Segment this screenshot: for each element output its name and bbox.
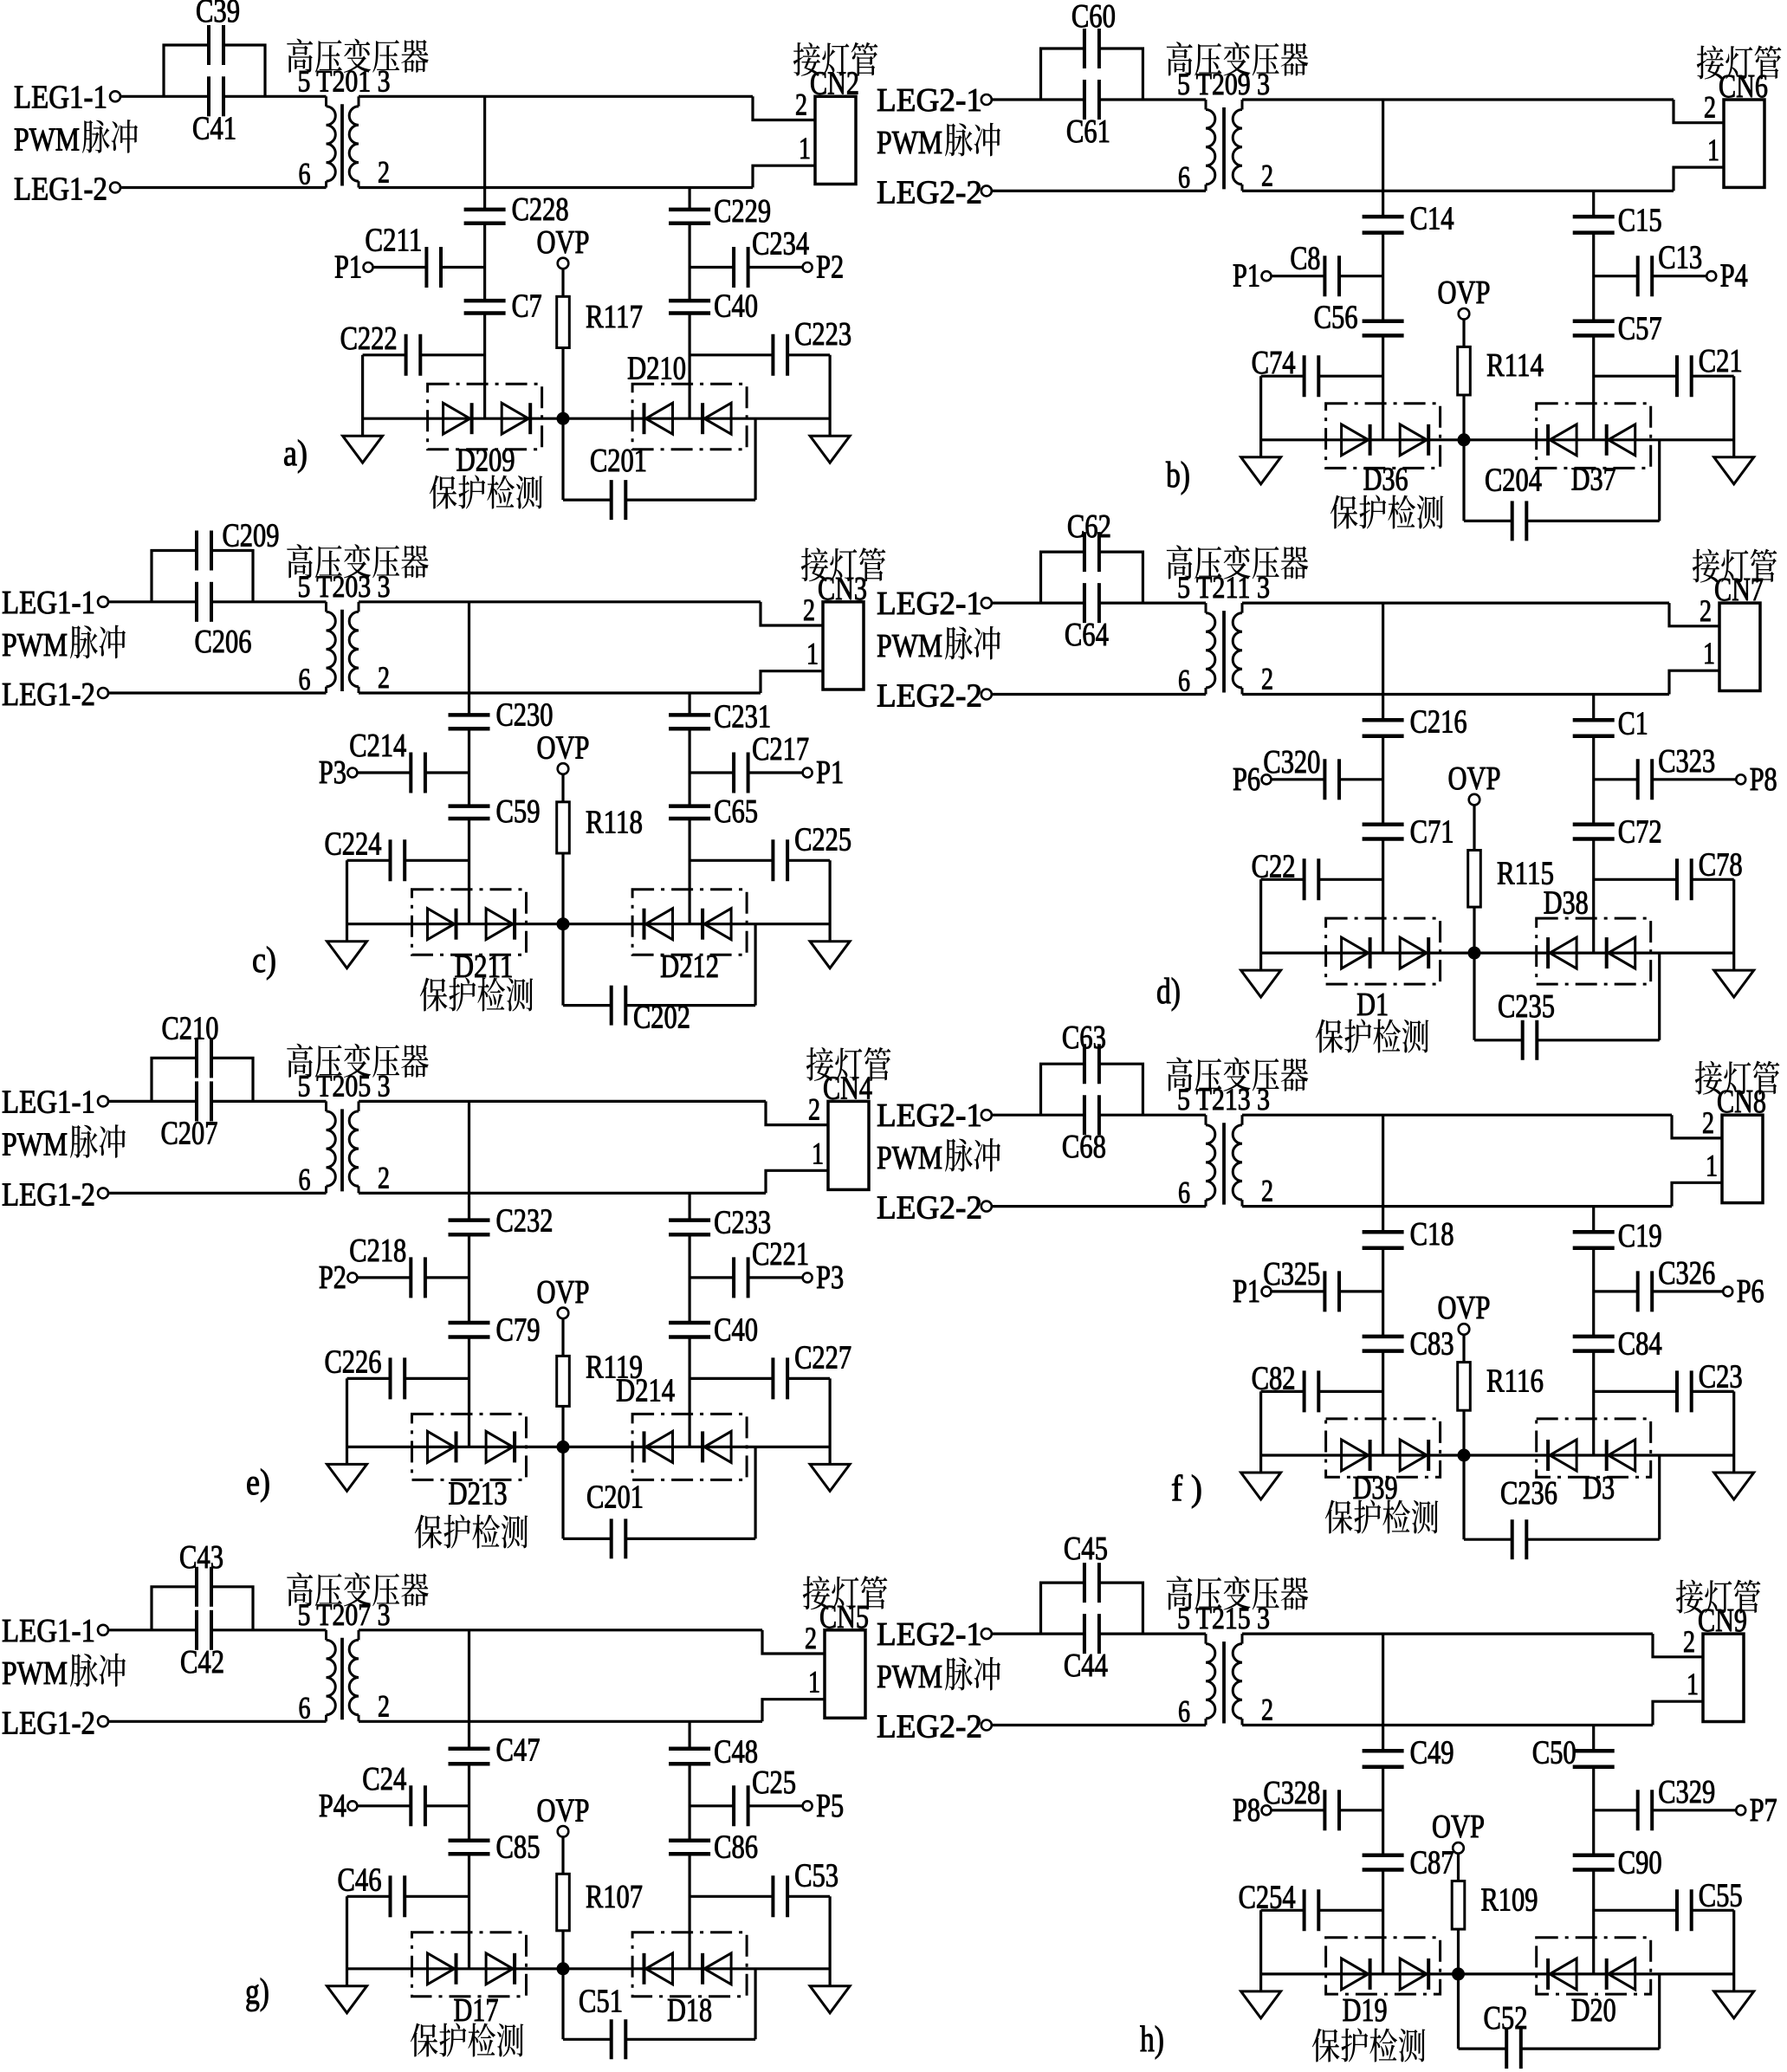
svg-text:LEG2-2: LEG2-2 xyxy=(877,1190,982,1227)
svg-text:D19: D19 xyxy=(1343,1992,1388,2029)
svg-text:R118: R118 xyxy=(586,804,643,840)
svg-text:LEG2-2: LEG2-2 xyxy=(877,678,982,715)
svg-text:2: 2 xyxy=(1261,662,1273,696)
svg-text:C209: C209 xyxy=(223,518,280,554)
svg-text:2: 2 xyxy=(1261,1174,1273,1208)
svg-text:CN6: CN6 xyxy=(1719,68,1768,105)
svg-text:P1: P1 xyxy=(1233,258,1260,295)
svg-text:C236: C236 xyxy=(1500,1475,1557,1512)
svg-text:C40: C40 xyxy=(714,288,758,325)
svg-text:LEG1-1: LEG1-1 xyxy=(2,1613,95,1649)
svg-text:h): h) xyxy=(1140,2020,1164,2060)
svg-text:C14: C14 xyxy=(1410,201,1454,237)
svg-text:OVP: OVP xyxy=(1438,1290,1491,1326)
svg-text:1: 1 xyxy=(808,1665,820,1700)
svg-text:C326: C326 xyxy=(1658,1255,1715,1292)
svg-text:C49: C49 xyxy=(1410,1735,1454,1771)
svg-text:C201: C201 xyxy=(586,1479,644,1515)
svg-text:C23: C23 xyxy=(1699,1358,1743,1395)
svg-text:OVP: OVP xyxy=(537,224,590,261)
svg-text:C214: C214 xyxy=(349,728,406,764)
svg-text:P3: P3 xyxy=(319,754,346,791)
svg-text:CN4: CN4 xyxy=(823,1070,872,1106)
svg-text:LEG1-2: LEG1-2 xyxy=(2,1705,95,1741)
svg-text:C329: C329 xyxy=(1658,1774,1715,1810)
svg-text:C228: C228 xyxy=(512,191,569,228)
svg-text:b): b) xyxy=(1166,456,1190,495)
svg-text:2: 2 xyxy=(378,155,390,190)
svg-text:C225: C225 xyxy=(794,821,851,858)
svg-text:P1: P1 xyxy=(1233,1273,1260,1310)
svg-text:C74: C74 xyxy=(1252,345,1296,381)
svg-text:C79: C79 xyxy=(496,1312,541,1349)
svg-text:5 T201 3: 5 T201 3 xyxy=(298,63,391,98)
svg-text:C18: C18 xyxy=(1410,1216,1454,1253)
svg-text:C65: C65 xyxy=(714,793,758,830)
svg-text:CN9: CN9 xyxy=(1698,1603,1747,1639)
svg-text:6: 6 xyxy=(299,157,311,191)
svg-text:C224: C224 xyxy=(325,826,382,862)
svg-text:LEG2-2: LEG2-2 xyxy=(877,174,982,210)
svg-text:CN8: CN8 xyxy=(1717,1084,1766,1120)
svg-text:C44: C44 xyxy=(1064,1648,1108,1684)
svg-text:C63: C63 xyxy=(1062,1020,1106,1056)
svg-text:PWM: PWM xyxy=(14,121,80,158)
svg-text:PWM: PWM xyxy=(2,1655,68,1692)
svg-text:6: 6 xyxy=(1178,1175,1190,1210)
svg-text:5 T207 3: 5 T207 3 xyxy=(298,1597,391,1632)
svg-text:P2: P2 xyxy=(319,1259,346,1296)
svg-text:1: 1 xyxy=(799,131,811,165)
svg-text:R114: R114 xyxy=(1486,347,1544,384)
svg-text:P7: P7 xyxy=(1750,1792,1777,1829)
svg-text:6: 6 xyxy=(1178,1694,1190,1729)
svg-text:C50: C50 xyxy=(1532,1735,1577,1771)
svg-text:C229: C229 xyxy=(714,193,771,230)
svg-text:P4: P4 xyxy=(1720,258,1748,295)
svg-text:6: 6 xyxy=(1178,664,1190,698)
svg-text:PWM: PWM xyxy=(877,125,942,161)
svg-text:C207: C207 xyxy=(161,1115,218,1151)
svg-text:C47: C47 xyxy=(496,1732,541,1768)
svg-text:C57: C57 xyxy=(1618,310,1662,346)
svg-text:C85: C85 xyxy=(496,1829,541,1865)
svg-text:D212: D212 xyxy=(660,949,719,985)
svg-text:P5: P5 xyxy=(816,1788,844,1824)
svg-text:1: 1 xyxy=(806,637,819,671)
svg-text:LEG1-2: LEG1-2 xyxy=(2,1176,95,1213)
svg-text:2: 2 xyxy=(1261,1693,1273,1727)
svg-text:C15: C15 xyxy=(1618,203,1662,239)
svg-text:C56: C56 xyxy=(1314,299,1358,335)
svg-text:P1: P1 xyxy=(816,754,844,791)
svg-text:D17: D17 xyxy=(454,1992,499,2029)
svg-text:1: 1 xyxy=(1706,1148,1718,1182)
svg-text:f ): f ) xyxy=(1171,1469,1202,1509)
svg-text:2: 2 xyxy=(803,592,815,627)
svg-text:C7: C7 xyxy=(512,288,542,325)
svg-text:D38: D38 xyxy=(1544,885,1589,922)
svg-text:1: 1 xyxy=(1707,133,1719,167)
svg-text:6: 6 xyxy=(299,1162,311,1196)
svg-text:C211: C211 xyxy=(365,223,422,259)
svg-text:P3: P3 xyxy=(816,1259,844,1296)
svg-text:D36: D36 xyxy=(1363,461,1408,497)
svg-text:5 T213 3: 5 T213 3 xyxy=(1177,1082,1270,1117)
svg-text:LEG1-1: LEG1-1 xyxy=(2,585,95,621)
svg-text:C90: C90 xyxy=(1618,1845,1662,1881)
svg-text:C72: C72 xyxy=(1618,814,1662,851)
svg-text:P8: P8 xyxy=(1233,1792,1260,1829)
svg-text:P1: P1 xyxy=(334,249,362,286)
svg-text:P4: P4 xyxy=(319,1788,346,1824)
svg-text:C13: C13 xyxy=(1658,240,1702,276)
svg-text:D3: D3 xyxy=(1583,1470,1615,1506)
svg-text:LEG1-1: LEG1-1 xyxy=(14,79,107,115)
svg-text:2: 2 xyxy=(1702,1105,1714,1140)
svg-text:C231: C231 xyxy=(714,698,771,735)
svg-text:C232: C232 xyxy=(496,1202,554,1239)
svg-text:C86: C86 xyxy=(714,1829,758,1865)
svg-text:C55: C55 xyxy=(1699,1877,1743,1913)
svg-text:2: 2 xyxy=(378,1160,390,1195)
svg-text:PWM: PWM xyxy=(877,1659,942,1695)
svg-text:C222: C222 xyxy=(340,321,398,357)
svg-text:D210: D210 xyxy=(627,351,686,387)
svg-text:LEG1-2: LEG1-2 xyxy=(14,172,107,208)
svg-text:R117: R117 xyxy=(586,299,643,335)
svg-text:C204: C204 xyxy=(1485,462,1542,498)
svg-text:C45: C45 xyxy=(1064,1531,1108,1567)
svg-text:D213: D213 xyxy=(449,1475,508,1512)
svg-text:C87: C87 xyxy=(1410,1845,1454,1881)
svg-text:OVP: OVP xyxy=(537,1274,590,1311)
svg-text:C53: C53 xyxy=(794,1857,838,1894)
svg-text:2: 2 xyxy=(1683,1624,1695,1659)
svg-text:C84: C84 xyxy=(1618,1326,1662,1363)
svg-text:P2: P2 xyxy=(816,249,844,286)
svg-text:5 T203 3: 5 T203 3 xyxy=(298,569,391,604)
svg-text:C51: C51 xyxy=(579,1983,623,2019)
svg-text:C41: C41 xyxy=(192,110,236,146)
svg-text:C325: C325 xyxy=(1263,1256,1320,1292)
svg-text:C328: C328 xyxy=(1263,1775,1320,1811)
svg-text:6: 6 xyxy=(299,662,311,696)
svg-text:C43: C43 xyxy=(179,1539,223,1576)
svg-text:C39: C39 xyxy=(196,0,240,29)
svg-text:e): e) xyxy=(246,1463,270,1503)
svg-text:2: 2 xyxy=(378,660,390,695)
svg-text:a): a) xyxy=(283,434,308,474)
svg-text:C254: C254 xyxy=(1239,1879,1296,1915)
svg-text:C206: C206 xyxy=(195,624,252,660)
svg-text:C234: C234 xyxy=(752,226,809,262)
svg-text:LEG1-1: LEG1-1 xyxy=(2,1084,95,1120)
svg-text:5 T211 3: 5 T211 3 xyxy=(1177,570,1270,605)
svg-text:C21: C21 xyxy=(1699,343,1743,379)
svg-text:2: 2 xyxy=(808,1092,820,1127)
svg-text:C201: C201 xyxy=(590,443,647,479)
svg-text:LEG2-2: LEG2-2 xyxy=(877,1709,982,1745)
svg-text:LEG2-1: LEG2-1 xyxy=(877,1616,982,1653)
svg-text:5 T209 3: 5 T209 3 xyxy=(1177,67,1270,101)
svg-text:LEG2-1: LEG2-1 xyxy=(877,1098,982,1134)
svg-text:PWM: PWM xyxy=(877,628,942,664)
svg-text:C19: C19 xyxy=(1618,1218,1662,1254)
svg-text:C320: C320 xyxy=(1263,744,1320,780)
svg-text:LEG2-1: LEG2-1 xyxy=(877,586,982,622)
svg-text:OVP: OVP xyxy=(537,729,590,766)
svg-text:C24: C24 xyxy=(362,1761,406,1797)
svg-text:C60: C60 xyxy=(1072,0,1116,35)
svg-text:PWM: PWM xyxy=(2,627,68,664)
svg-text:C210: C210 xyxy=(162,1010,219,1046)
svg-text:OVP: OVP xyxy=(1448,761,1501,797)
svg-text:C323: C323 xyxy=(1658,743,1715,780)
svg-text:1: 1 xyxy=(1703,636,1715,670)
svg-text:C22: C22 xyxy=(1252,848,1296,884)
svg-text:C235: C235 xyxy=(1498,988,1555,1025)
svg-text:2: 2 xyxy=(1700,593,1712,628)
svg-text:C59: C59 xyxy=(496,793,541,830)
svg-text:5 T215 3: 5 T215 3 xyxy=(1177,1601,1270,1635)
svg-text:2: 2 xyxy=(1704,90,1716,125)
svg-text:D37: D37 xyxy=(1571,461,1616,497)
svg-text:OVP: OVP xyxy=(1438,275,1491,311)
svg-text:CN5: CN5 xyxy=(819,1599,869,1635)
svg-text:C218: C218 xyxy=(349,1233,406,1269)
svg-text:LEG2-1: LEG2-1 xyxy=(877,82,982,119)
svg-text:C221: C221 xyxy=(752,1236,809,1272)
svg-text:C40: C40 xyxy=(714,1312,758,1349)
svg-text:C25: C25 xyxy=(752,1764,796,1801)
svg-text:C64: C64 xyxy=(1065,617,1109,653)
svg-text:C61: C61 xyxy=(1066,113,1110,150)
svg-text:C82: C82 xyxy=(1252,1360,1296,1396)
svg-text:C83: C83 xyxy=(1410,1326,1454,1363)
svg-text:C78: C78 xyxy=(1699,846,1743,883)
svg-text:C68: C68 xyxy=(1062,1129,1106,1165)
svg-text:1: 1 xyxy=(1687,1667,1699,1701)
svg-text:2: 2 xyxy=(1261,158,1273,192)
svg-text:C52: C52 xyxy=(1484,2000,1528,2036)
svg-text:2: 2 xyxy=(805,1621,817,1655)
svg-text:2: 2 xyxy=(795,87,807,122)
svg-text:OVP: OVP xyxy=(1432,1809,1485,1845)
svg-text:2: 2 xyxy=(378,1688,390,1723)
svg-text:C202: C202 xyxy=(633,1000,690,1036)
svg-text:C230: C230 xyxy=(496,696,554,733)
svg-text:R107: R107 xyxy=(586,1879,643,1915)
svg-text:R116: R116 xyxy=(1486,1363,1544,1399)
svg-text:D214: D214 xyxy=(616,1372,675,1408)
svg-text:1: 1 xyxy=(812,1136,824,1170)
svg-text:C71: C71 xyxy=(1410,814,1454,851)
svg-text:P6: P6 xyxy=(1737,1273,1764,1310)
svg-text:d): d) xyxy=(1156,972,1181,1012)
svg-text:CN3: CN3 xyxy=(818,571,867,607)
svg-text:D18: D18 xyxy=(667,1992,712,2029)
svg-text:C62: C62 xyxy=(1067,508,1111,545)
svg-text:D209: D209 xyxy=(456,443,515,479)
svg-text:5 T205 3: 5 T205 3 xyxy=(298,1068,391,1103)
svg-text:PWM: PWM xyxy=(877,1140,942,1176)
svg-text:C46: C46 xyxy=(338,1862,382,1898)
svg-text:C223: C223 xyxy=(794,316,851,353)
svg-text:LEG1-2: LEG1-2 xyxy=(2,677,95,713)
svg-text:C227: C227 xyxy=(794,1339,851,1376)
svg-text:R109: R109 xyxy=(1481,1881,1538,1918)
svg-text:C216: C216 xyxy=(1410,704,1467,741)
svg-text:C217: C217 xyxy=(752,731,809,767)
svg-text:C8: C8 xyxy=(1290,241,1320,277)
svg-text:C1: C1 xyxy=(1618,706,1648,742)
svg-text:c): c) xyxy=(252,941,276,981)
svg-text:C226: C226 xyxy=(325,1344,382,1380)
svg-text:CN2: CN2 xyxy=(810,65,859,101)
svg-text:g): g) xyxy=(245,1972,269,2012)
svg-text:P8: P8 xyxy=(1750,761,1777,798)
svg-text:OVP: OVP xyxy=(537,1792,590,1829)
svg-text:6: 6 xyxy=(1178,159,1190,194)
svg-text:C42: C42 xyxy=(180,1644,224,1680)
svg-text:PWM: PWM xyxy=(2,1126,68,1162)
svg-text:6: 6 xyxy=(299,1690,311,1725)
svg-text:D1: D1 xyxy=(1356,987,1389,1023)
svg-text:D20: D20 xyxy=(1571,1992,1616,2029)
svg-text:P6: P6 xyxy=(1233,761,1260,798)
svg-text:CN7: CN7 xyxy=(1714,572,1764,608)
